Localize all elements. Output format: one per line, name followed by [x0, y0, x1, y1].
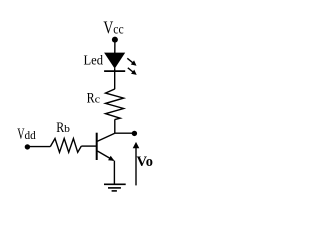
svg-text:Rb: Rb [56, 120, 70, 136]
svg-text:Led: Led [84, 54, 104, 69]
svg-text:Vo: Vo [137, 154, 153, 170]
